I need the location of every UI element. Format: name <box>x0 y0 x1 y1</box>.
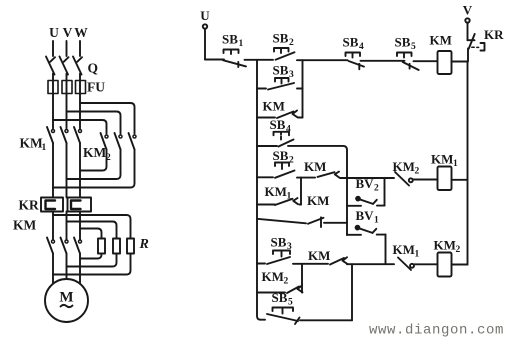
svg-text:Q: Q <box>88 61 99 76</box>
svg-text:5: 5 <box>288 298 293 308</box>
svg-text:2: 2 <box>456 245 461 255</box>
svg-text:KM: KM <box>83 145 107 160</box>
svg-text:V: V <box>63 25 73 40</box>
svg-text:KM: KM <box>262 269 284 284</box>
svg-text:1: 1 <box>374 216 379 226</box>
svg-text:KM: KM <box>308 248 330 263</box>
svg-text:2: 2 <box>289 38 294 48</box>
svg-text:W: W <box>74 25 88 40</box>
svg-text:KM: KM <box>431 152 453 167</box>
svg-text:www.diangon.com: www.diangon.com <box>369 323 504 339</box>
svg-text:BV: BV <box>356 208 375 223</box>
svg-text:1: 1 <box>415 250 420 260</box>
svg-text:BV: BV <box>356 176 375 191</box>
svg-text:SB: SB <box>273 63 289 78</box>
svg-text:KM: KM <box>393 242 415 257</box>
svg-text:R: R <box>139 237 149 252</box>
svg-text:U: U <box>49 25 59 40</box>
svg-text:SB: SB <box>395 35 411 50</box>
svg-text:KR: KR <box>19 198 40 213</box>
svg-text:1: 1 <box>287 192 292 202</box>
svg-text:KR: KR <box>484 27 504 42</box>
svg-text:1: 1 <box>42 143 47 153</box>
svg-text:KM: KM <box>430 33 452 48</box>
svg-text:M: M <box>59 290 73 306</box>
svg-text:4: 4 <box>359 42 364 52</box>
svg-text:2: 2 <box>284 277 289 287</box>
svg-text:SB: SB <box>271 235 287 250</box>
svg-text:V: V <box>463 3 473 18</box>
svg-text:SB: SB <box>273 31 289 46</box>
svg-text:KM: KM <box>265 184 287 199</box>
svg-text:2: 2 <box>289 156 294 166</box>
svg-text:KM: KM <box>434 238 456 253</box>
svg-text:KM: KM <box>263 99 285 114</box>
svg-text:SB: SB <box>272 290 288 305</box>
svg-text:KM: KM <box>13 218 37 233</box>
svg-text:2: 2 <box>106 153 111 163</box>
svg-text:5: 5 <box>411 42 416 52</box>
svg-text:U: U <box>200 8 210 23</box>
svg-text:KM: KM <box>304 159 326 174</box>
svg-text:3: 3 <box>289 70 294 80</box>
svg-text:SB: SB <box>273 148 289 163</box>
svg-text:KM: KM <box>393 159 415 174</box>
svg-text:1: 1 <box>453 159 458 169</box>
svg-text:4: 4 <box>286 125 291 135</box>
svg-text:3: 3 <box>287 242 292 252</box>
svg-text:1: 1 <box>239 39 244 49</box>
svg-text:SB: SB <box>270 117 286 132</box>
svg-text:SB: SB <box>222 32 238 47</box>
svg-text:KM: KM <box>20 136 44 151</box>
svg-text:2: 2 <box>374 184 379 194</box>
svg-text:SB: SB <box>343 35 359 50</box>
svg-text:2: 2 <box>415 167 420 177</box>
svg-text:FU: FU <box>87 80 105 95</box>
svg-text:KM: KM <box>307 193 329 208</box>
